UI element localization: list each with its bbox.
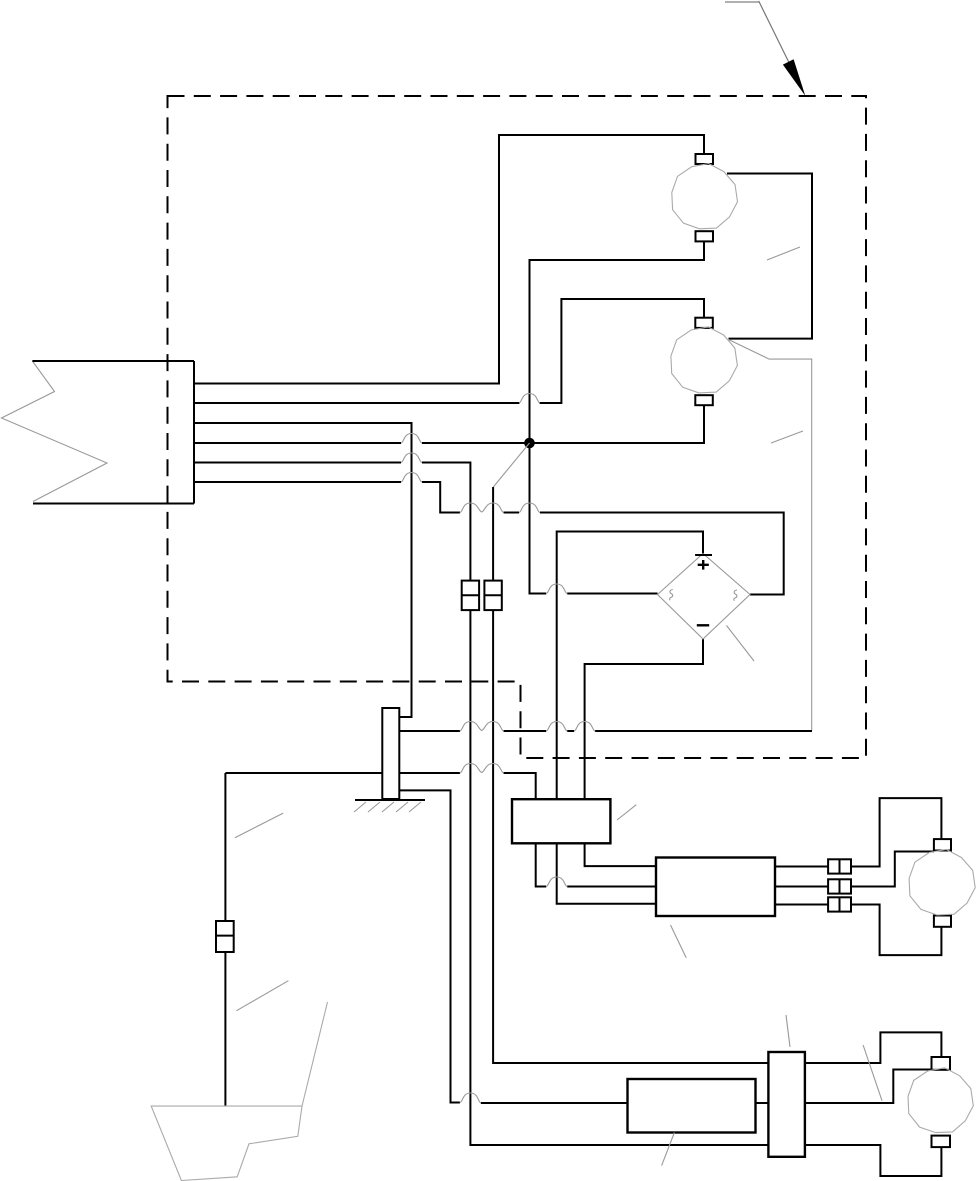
wire bridge minus output to relay xyxy=(585,639,703,799)
leader line at bridge D1 xyxy=(727,626,755,662)
wire pin2 to motor M2 top xyxy=(194,299,704,403)
connector pair CN2 xyxy=(828,879,851,893)
leader line at motor M1 xyxy=(767,247,800,260)
relay K1 xyxy=(512,799,610,843)
ground bar wire mid to gray rail end xyxy=(399,730,812,732)
connector block J1 xyxy=(32,361,194,504)
hop arc over x556.7 on relay output a xyxy=(546,877,567,887)
leader line at motor M4 xyxy=(863,1045,882,1101)
controller U1 xyxy=(656,858,775,917)
ground bar wire to relay input xyxy=(399,773,535,799)
wire pin1 to motor M1 top xyxy=(194,135,704,384)
motor M1 top pad xyxy=(696,154,714,164)
controller U2 xyxy=(628,1079,756,1133)
reservoir bucket outline xyxy=(151,1002,327,1181)
hop arc over x556.7 on bridge AC1 wire xyxy=(546,584,567,594)
hop arc over x470.4 on bottom mid row xyxy=(460,1093,481,1103)
double hop arcs over fuses wires on pin6 row y512.5 xyxy=(460,503,504,513)
wire controller row3 to motor M3 bottom xyxy=(775,905,941,956)
ground symbol hatches xyxy=(354,802,421,812)
motor M2 case ground gray wire to ground rail xyxy=(729,340,812,732)
motor M4 top pad xyxy=(932,1057,951,1070)
dashed enclosure border xyxy=(168,96,867,758)
motor M1 body xyxy=(672,164,738,229)
bridge rectifier minus mark xyxy=(697,624,709,626)
motor M4 bottom pad xyxy=(932,1136,951,1148)
hop arc over x556.7 on ground row y731 xyxy=(546,722,567,732)
motor M3 body xyxy=(909,849,975,915)
wire controller row1 to motor M3 top xyxy=(775,798,941,866)
ground bar wire top stub xyxy=(399,716,411,718)
leader arrow to enclosure (figure pointer) xyxy=(725,1,805,96)
wire motor M1 right to motor M2 right link xyxy=(727,174,812,339)
junction node dot xyxy=(524,438,535,449)
motor M2 top pad xyxy=(695,318,713,328)
wire controller row2 to motor M3 brush xyxy=(775,852,934,887)
wire pin5 to fuse F1 and bottom row xyxy=(194,463,768,1146)
wire box2 to tall connector mid row xyxy=(756,1102,769,1104)
wire pin4 to junction node xyxy=(194,405,704,443)
ground bar wire to bottom mid row xyxy=(399,790,627,1103)
relay output a to controller xyxy=(536,843,656,886)
wire fuse F2 line down to bottom top-row xyxy=(493,487,768,1063)
wire left loop to ground bar xyxy=(225,772,382,774)
wire pin6 to bridge AC2 xyxy=(194,482,784,595)
wire tall connector to motor M4 top xyxy=(805,1032,942,1063)
ground symbol line xyxy=(355,799,425,801)
double hop arcs over fuses wires on relay feed y773 xyxy=(460,764,504,774)
wire bridge plus output to relay xyxy=(557,532,703,800)
connector pair CN3 xyxy=(828,897,851,911)
motor M2 bottom pad xyxy=(695,395,713,405)
leader line at controller U2 xyxy=(662,1133,675,1166)
bridge rectifier AC squiggle right xyxy=(734,590,737,601)
hop arc over x584.6 on ground row y731 xyxy=(574,722,595,732)
wire tall connector to motor M4 brush xyxy=(805,1070,932,1104)
wire pin3 to ground bar xyxy=(194,423,412,717)
leader line at reservoir xyxy=(237,981,289,1011)
ground bar xyxy=(382,708,399,799)
fuse F2 xyxy=(484,581,501,611)
hop arc over x529.5 on pin2 wire xyxy=(519,394,540,404)
wire left loop down to fuse F3 and reservoir xyxy=(224,773,226,1106)
hop arc over x411.5 on pin4 wire xyxy=(401,434,422,444)
motor M3 bottom pad xyxy=(934,916,951,927)
bridge rectifier plus mark xyxy=(698,560,709,570)
bridge rectifier top corner tick xyxy=(695,554,712,556)
leader line at relay K1 xyxy=(617,805,636,820)
leader line at tall connector CN4 xyxy=(786,1015,790,1047)
motor M2 body xyxy=(671,327,738,393)
connector pair CN1 xyxy=(828,859,851,873)
relay output b to controller xyxy=(557,843,656,903)
leader line at controller U1 xyxy=(671,925,687,958)
hop arc over x411.5 on pin6 wire xyxy=(401,473,422,483)
hop arc over x529.5 on pin6 row y512.5 xyxy=(519,503,540,513)
motor M4 body xyxy=(908,1068,973,1133)
motor M1 bottom pad xyxy=(696,231,714,241)
junction branch leader to fuse F2 wire xyxy=(493,443,529,487)
motor M3 top pad xyxy=(934,839,951,850)
leader line at motor M2 xyxy=(771,431,803,443)
cable break zigzag (harness) xyxy=(2,361,108,502)
wire tall connector to motor M4 bottom xyxy=(805,1145,942,1176)
tall connector CN4 xyxy=(768,1052,805,1157)
wire motor M1 bottom to junction and bridge AC1 xyxy=(530,241,705,593)
double hop arcs over fuses wires on ground row y731 xyxy=(460,722,504,732)
fuse F3 xyxy=(216,921,234,952)
fuse F1 xyxy=(462,581,479,611)
leader line at left loop wire xyxy=(235,813,283,838)
bridge rectifier AC squiggle left xyxy=(670,590,673,601)
relay output c to controller xyxy=(585,843,656,866)
bridge rectifier D1 body xyxy=(658,554,751,640)
hop arc over x411.5 on pin5 wire xyxy=(401,453,422,463)
